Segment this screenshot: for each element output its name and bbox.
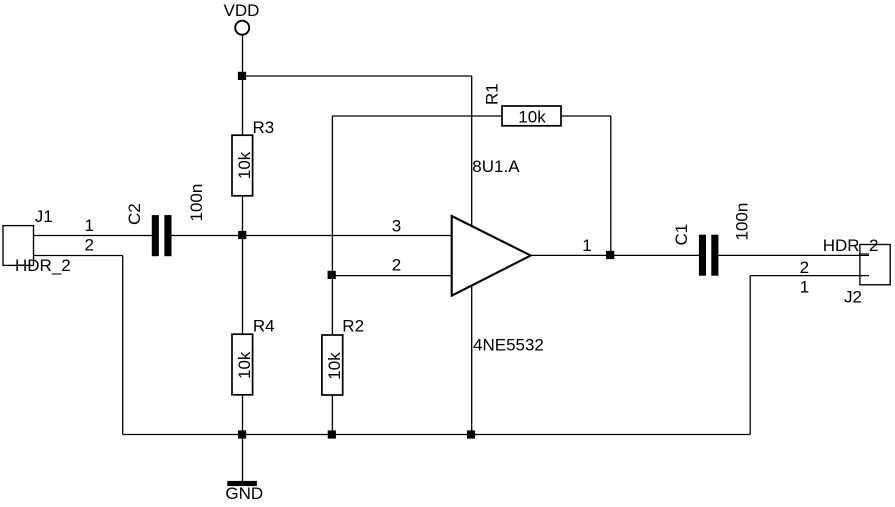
svg-text:3: 3 <box>392 216 401 235</box>
svg-text:R1: R1 <box>482 83 501 105</box>
svg-text:100n: 100n <box>187 184 206 222</box>
svg-text:HDR_2: HDR_2 <box>15 256 71 275</box>
junction rail / R2 <box>328 430 336 438</box>
junction node A (R3/R4/C2/pin3) <box>238 231 246 239</box>
connector J1 <box>3 226 34 266</box>
svg-text:4NE5532: 4NE5532 <box>473 335 544 354</box>
wire J1 pin1 to C2 <box>34 235 153 237</box>
capacitor C2 <box>152 215 159 256</box>
svg-text:100n: 100n <box>733 203 752 241</box>
junction output node <box>606 251 614 259</box>
svg-text:C2: C2 <box>125 203 144 225</box>
svg-text:10k: 10k <box>325 352 344 380</box>
svg-text:R3: R3 <box>253 118 275 137</box>
wire ground rail <box>123 434 751 436</box>
svg-text:J1: J1 <box>35 207 53 226</box>
wire feedback top horizontal <box>332 115 502 117</box>
power symbol VDD <box>235 21 249 35</box>
wire R4 bottom <box>242 395 244 435</box>
junction inverting node <box>328 271 336 279</box>
svg-text:C1: C1 <box>672 224 691 246</box>
svg-text:GND: GND <box>225 484 263 503</box>
svg-text:10k: 10k <box>235 151 254 179</box>
svg-text:10k: 10k <box>235 351 254 379</box>
op-amp U1.A <box>452 216 531 296</box>
svg-text:HDR_2: HDR_2 <box>823 236 879 255</box>
wire C2 to node A <box>172 235 452 237</box>
wire feedback right vertical <box>610 116 612 255</box>
wire J2 pin1 drop <box>749 276 751 435</box>
junction rail / GND <box>238 430 246 438</box>
svg-text:1: 1 <box>582 236 591 255</box>
svg-text:2: 2 <box>800 258 809 277</box>
wire J1 pin2 drop to ground rail <box>122 256 124 435</box>
svg-text:2: 2 <box>392 255 401 274</box>
capacitor C1 <box>699 235 706 276</box>
resistor R2 <box>322 335 343 395</box>
wire C1 to J2 pin2 <box>718 254 869 256</box>
resistor R4 <box>232 334 253 395</box>
svg-text:J2: J2 <box>844 287 862 306</box>
wire GND stem <box>242 435 244 482</box>
wire op-amp V+ drop <box>471 76 473 226</box>
wire R1 right <box>561 115 611 117</box>
svg-text:R4: R4 <box>253 317 275 336</box>
junction at VDD rail / R3 <box>238 72 246 80</box>
wire J2 pin1 horizontal <box>750 275 869 277</box>
ground symbol <box>227 481 257 486</box>
svg-text:VDD: VDD <box>224 1 260 20</box>
resistor R1 <box>502 106 561 126</box>
connector J2 <box>860 245 890 285</box>
wire output <box>531 254 699 256</box>
wire feedback left vertical <box>331 116 333 276</box>
svg-text:8U1.A: 8U1.A <box>472 157 520 176</box>
svg-text:R2: R2 <box>342 316 364 335</box>
wire inverting input <box>332 275 451 277</box>
svg-text:2: 2 <box>84 236 93 255</box>
resistor R3 <box>232 135 253 196</box>
wire J1 pin2 horizontal <box>34 255 123 257</box>
wire VDD top rail <box>243 75 472 77</box>
wire R4 top <box>242 236 244 335</box>
wire R3 top <box>242 76 244 135</box>
svg-text:1: 1 <box>84 216 93 235</box>
wire R2 top <box>331 276 333 335</box>
wire R2 bottom <box>331 395 333 435</box>
svg-text:10k: 10k <box>518 108 546 127</box>
wire R3 bottom <box>242 196 244 236</box>
svg-text:1: 1 <box>800 278 809 297</box>
junction rail / op-amp V- <box>467 430 475 438</box>
wire op-amp V- drop <box>471 286 473 435</box>
wire VDD stem <box>242 36 244 77</box>
